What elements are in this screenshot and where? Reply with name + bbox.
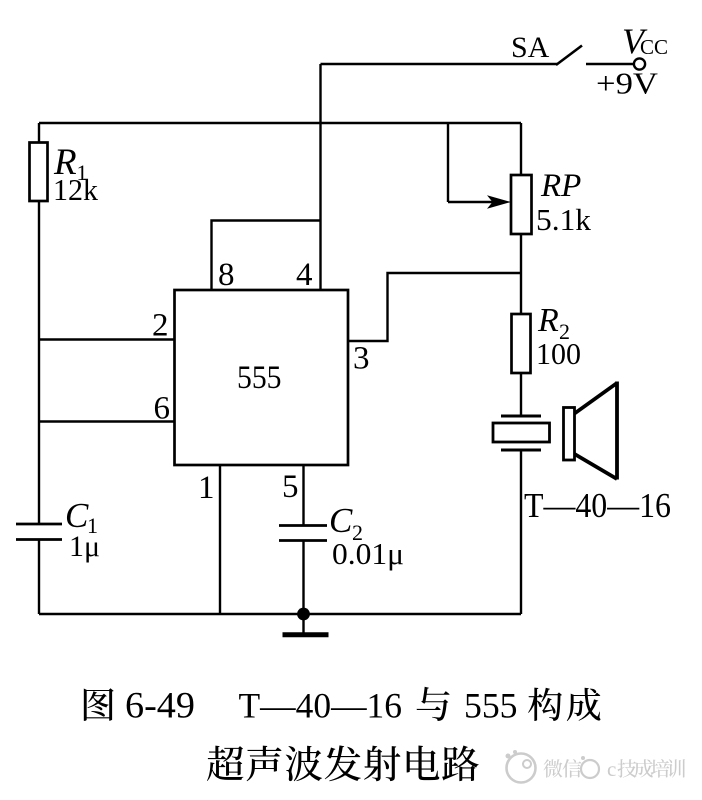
capacitor C1 — [16, 523, 62, 526]
watermark text 微信 — [544, 759, 563, 777]
wire: C2 to ground rail — [302, 542, 304, 615]
svg-text:+9V: +9V — [596, 66, 659, 101]
potentiometer RP — [511, 175, 532, 234]
svg-text:2: 2 — [152, 308, 169, 344]
resistor R2 — [512, 314, 531, 373]
svg-text:5.1k: 5.1k — [536, 202, 592, 237]
svg-text:8: 8 — [218, 257, 235, 293]
svg-text:SA: SA — [511, 31, 550, 64]
svg-text:12k: 12k — [53, 172, 98, 207]
ultrasonic transducer plates and crystal — [501, 415, 541, 418]
svg-text:R: R — [537, 302, 559, 339]
wire: pin 3 lead right, up, and over to RP/R2 node — [348, 273, 521, 341]
svg-text:6-49: 6-49 — [125, 686, 195, 727]
wire: pin 8 lead up and over to riser — [212, 221, 321, 291]
svg-text:100: 100 — [536, 336, 581, 371]
watermark icon blob — [507, 754, 536, 783]
resistor R1 — [30, 143, 48, 202]
speaker horn — [564, 408, 575, 461]
svg-text:6: 6 — [154, 391, 171, 427]
svg-text:c: c — [607, 757, 616, 781]
wire: RP bottom through pin3 node to R2 — [520, 234, 522, 315]
wire: pin 6 lead — [39, 420, 175, 422]
wire: pin 2 lead — [39, 338, 175, 340]
svg-text:C: C — [329, 501, 353, 540]
svg-text:5: 5 — [282, 469, 299, 505]
IC U1 555 box — [175, 290, 349, 465]
ground symbol — [302, 614, 304, 634]
wire: pin 1 lead down to ground rail — [219, 465, 221, 614]
svg-text:T—40—16: T—40—16 — [524, 486, 671, 525]
wire: transducer to ground rail — [520, 452, 522, 615]
wire: pin4/pin8 riser (x=320) from switch wire to IC top — [319, 64, 321, 290]
wire: left rail R1 to C1 — [38, 201, 40, 523]
wire: switch feed horizontal from pin4 riser to switch contact — [321, 63, 558, 65]
wire: R2 to transducer — [520, 373, 522, 415]
wire: RP wiper riser from rail — [447, 123, 449, 202]
VCC terminal open circle — [634, 58, 645, 69]
wire: top VCC rail — [39, 122, 521, 124]
svg-text:1μ: 1μ — [69, 530, 100, 563]
junction dot at ground node — [297, 608, 310, 621]
svg-text:RP: RP — [540, 168, 581, 204]
wire: left rail C1 to bottom rail — [38, 541, 40, 615]
watermark small icon — [581, 760, 599, 778]
svg-text:3: 3 — [353, 341, 370, 377]
svg-text:T—40—16: T—40—16 — [239, 686, 403, 726]
svg-text:4: 4 — [296, 257, 313, 293]
wire: left rail top segment to R1 — [38, 123, 40, 144]
wire: switch to VCC terminal — [586, 63, 634, 65]
caption line 1: fig number — [84, 688, 114, 721]
switch SA blade — [556, 46, 582, 66]
wire: pin 5 lead down to C2 — [302, 465, 304, 525]
svg-text:555: 555 — [464, 686, 518, 726]
wire: rail down to RP top — [520, 123, 522, 176]
svg-text:1: 1 — [198, 470, 215, 506]
caption line 2 — [207, 746, 243, 781]
capacitor C2 — [279, 524, 327, 527]
svg-text:0.01μ: 0.01μ — [332, 536, 404, 571]
wire: bottom ground rail — [39, 613, 521, 615]
svg-text:555: 555 — [237, 360, 282, 396]
svg-text:CC: CC — [640, 35, 668, 59]
wire: RP wiper arrow — [448, 201, 499, 203]
